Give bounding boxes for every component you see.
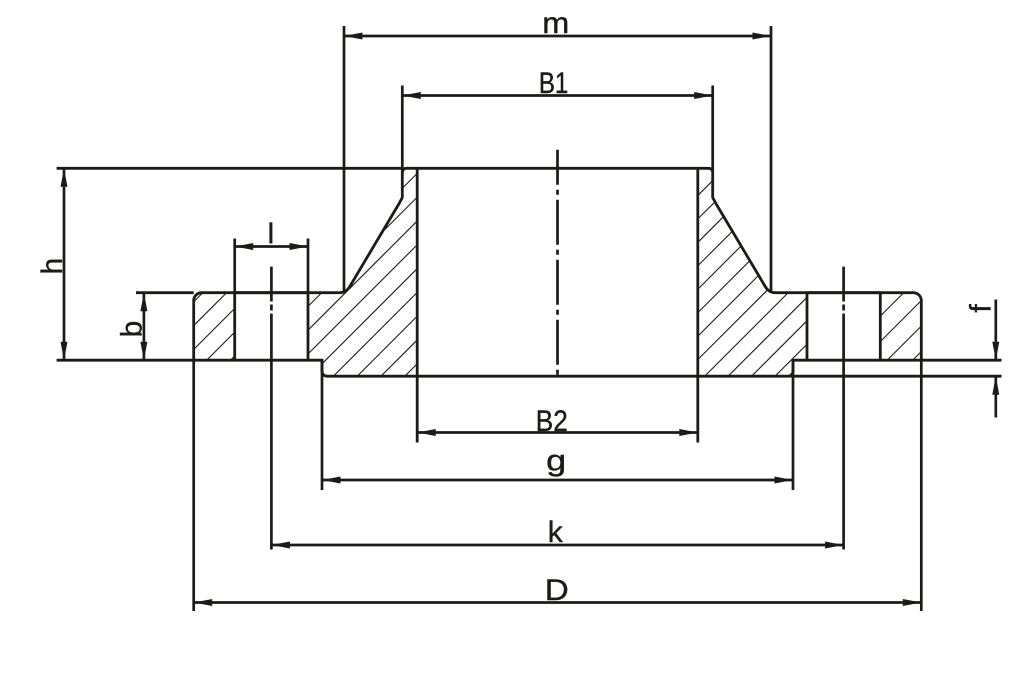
dimension B1 line [402,94,712,97]
plate top line across left bolt hole [235,291,308,294]
label l [269,222,272,243]
dimension l extension lines [233,239,236,293]
f extension line raised face bottom [790,375,1002,378]
left bolt hole centerline / k extension [270,267,273,302]
bore right edge / B2 extension [696,168,699,442]
dimension l line [235,245,308,248]
dimension m line [344,35,771,38]
svg-text:m: m [542,7,569,40]
dimension k line [271,544,843,547]
bottom extension line for h and b [57,359,194,362]
top face line with h extension [57,167,404,170]
plate top line across right bolt hole [807,291,880,294]
right bolt hole left edge [806,293,809,361]
dimension g line [322,479,793,482]
dimension m extension lines [343,26,346,293]
bore left edge / B2 extension [416,168,419,442]
svg-text:B1: B1 [539,67,569,100]
plate top extension line for b [136,291,194,294]
dimension h line [63,168,66,360]
svg-text:B2: B2 [536,405,568,438]
hatch left hub/plate section [187,164,617,380]
dimension f lower line [994,377,997,417]
dimension b line [143,293,146,361]
right bolt hole right edge [879,293,882,361]
dimension D extension lines [192,360,195,611]
svg-text:k: k [548,516,564,549]
left bolt hole right edge [307,293,310,361]
left bolt hole left edge [233,293,236,361]
f extension line plate bottom [921,359,1001,362]
svg-text:h: h [36,258,69,275]
dimension g extension lines [321,360,324,490]
flange body outline [194,168,922,376]
svg-text:b: b [116,321,149,338]
hatch right outer strip [807,289,985,365]
dimension B1 extension lines [401,86,404,173]
svg-text:f: f [965,304,998,313]
svg-text:D: D [545,574,569,607]
hatch left outer strip [131,289,302,365]
dimension B2 line [417,431,698,434]
dimension D line [194,601,922,604]
dimension f upper line [994,300,997,360]
right bolt hole centerline / k extension [842,267,845,302]
main centerline [556,150,559,378]
hatch right hub/plate section [513,164,987,380]
svg-text:g: g [546,444,566,477]
